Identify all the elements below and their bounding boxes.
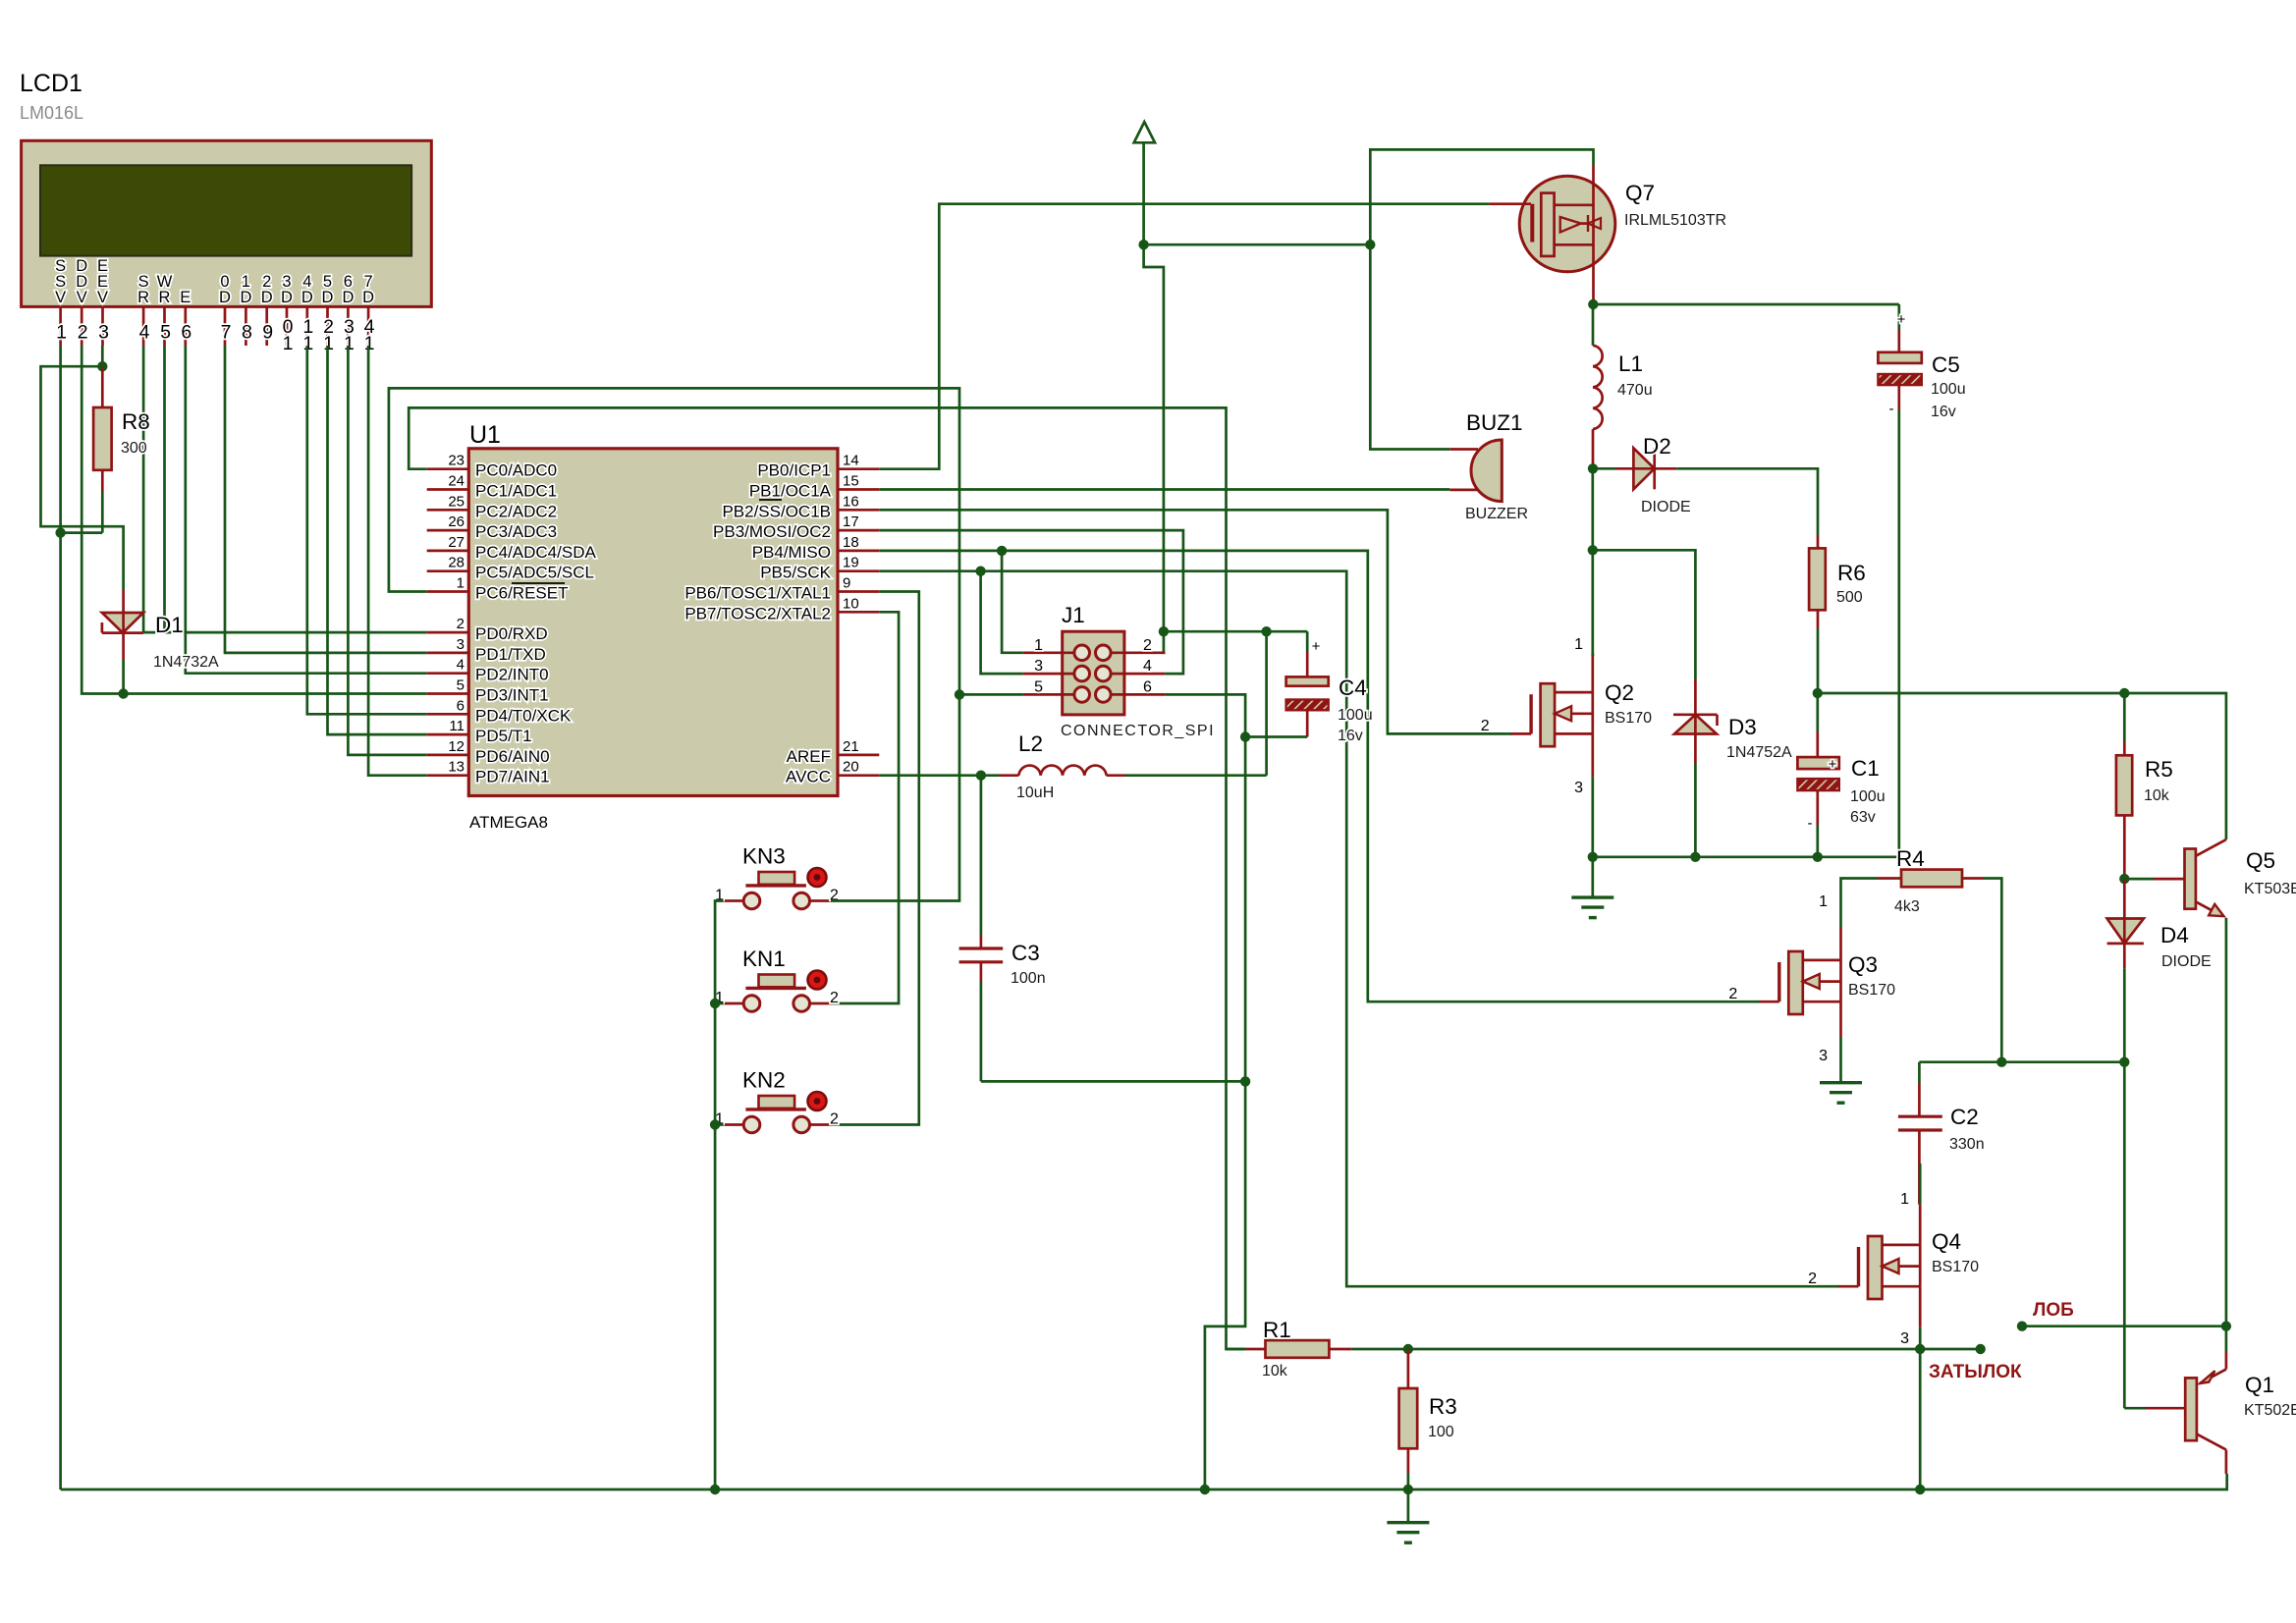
junction node706 / R5 top (2119, 688, 2129, 698)
svg-text:2: 2 (1143, 637, 1152, 654)
wire Q7 drain to C5 (1593, 303, 1899, 306)
svg-text:IRLML5103TR: IRLML5103TR (1624, 212, 1726, 229)
junction L1 bottom / D2 anode (1588, 463, 1598, 473)
svg-text:BUZ1: BUZ1 (1466, 410, 1523, 435)
svg-text:4: 4 (139, 322, 150, 344)
wire J1 pin1 branch (1002, 551, 1023, 653)
svg-text:1: 1 (1574, 636, 1583, 653)
label ZATYLOK (1929, 1362, 2022, 1382)
ground symbol under Q3 (1820, 1083, 1862, 1104)
svg-text:18: 18 (843, 534, 859, 551)
svg-text:100n: 100n (1011, 970, 1046, 987)
svg-text:-: - (1808, 815, 1813, 832)
svg-text:11: 11 (449, 718, 465, 734)
transistor Q3 BS170 n-MOSFET (1728, 893, 1895, 1064)
junction PB5 / J1 pin3 branch (975, 567, 985, 576)
wire PD0 row: D1 cathode to chip pin2 (143, 631, 427, 634)
svg-text:V: V (77, 289, 87, 306)
svg-text:13: 13 (448, 759, 465, 776)
wire VEE loop to D1 anode (41, 366, 124, 589)
diode D2 DIODE (1593, 434, 1691, 515)
wire D2 cathode to R6 top (1676, 468, 1818, 535)
junction rail / C1 bottom (1813, 852, 1823, 862)
wire E net: LCD pin6 down to chip pin4 row (186, 346, 427, 674)
junction J1pin6 column / C4 bottom (1240, 731, 1250, 741)
svg-text:1N4752A: 1N4752A (1726, 744, 1792, 761)
svg-text:3: 3 (1819, 1048, 1828, 1064)
LCD display LCD1 LM016L (20, 70, 431, 306)
svg-text:R4: R4 (1896, 846, 1925, 871)
junction J1pin6 column / C3 bottom row (1240, 1076, 1250, 1086)
wire VEE net: LCD pin3 down to R8 top (101, 346, 104, 366)
wire PB6 net: chip pin9 to KN2 pin2 (831, 592, 919, 1125)
svg-text:25: 25 (448, 493, 465, 510)
transistor Q7 IRLML5103TR p-MOSFET (1490, 165, 1726, 304)
wire main ground rail (61, 1474, 2227, 1489)
junction Q4 source / ground rail (1915, 1485, 1925, 1494)
svg-text:J1: J1 (1062, 603, 1085, 627)
svg-text:PB3/MOSI/OC2: PB3/MOSI/OC2 (713, 522, 831, 541)
power VCC arrow symbol (1134, 122, 1155, 244)
junction VCC rail / Q7 drain branch (1365, 240, 1375, 249)
svg-text:12: 12 (448, 738, 465, 755)
junction VEE / R8 / loop (97, 361, 107, 371)
junction rail / button chain (710, 1485, 720, 1494)
svg-text:D: D (342, 289, 354, 306)
wire Q2 source down to ground node (1591, 777, 1594, 857)
svg-text:1: 1 (283, 333, 294, 354)
svg-text:BS170: BS170 (1932, 1259, 1979, 1275)
junction PB4 / J1 pin1 branch (997, 546, 1007, 556)
svg-text:PB7/TOSC2/XTAL2: PB7/TOSC2/XTAL2 (684, 604, 831, 622)
wire ZATYLOK row R1 to probe (1408, 1348, 1981, 1351)
svg-text:D: D (240, 289, 251, 306)
wire J1 pin3 branch (981, 571, 1023, 674)
svg-text:10: 10 (843, 595, 859, 612)
svg-text:27: 27 (448, 534, 465, 551)
svg-text:PC5/ADC5/SCL: PC5/ADC5/SCL (475, 564, 594, 582)
wire Q2 drain up to D2 node (1591, 654, 1594, 656)
wire PC0/ADC0 net: chip pin23 left, up, right, down to R1 (409, 407, 1245, 1349)
svg-text:PC1/ADC1: PC1/ADC1 (475, 482, 557, 501)
wire R8 bottom to VSS (61, 491, 103, 533)
svg-text:2: 2 (1728, 986, 1737, 1002)
junction C4 branch / L2 right riser (1261, 626, 1271, 636)
svg-text:ЛОБ: ЛОБ (2033, 1300, 2074, 1321)
svg-text:10uH: 10uH (1016, 784, 1054, 801)
svg-text:19: 19 (843, 555, 859, 571)
svg-text:5: 5 (160, 322, 171, 344)
capacitor C3 100n (959, 776, 1246, 1082)
wire KN1 pin1 stub (715, 1002, 724, 1005)
capacitor C5 100u 16v polarized (1878, 304, 1965, 857)
svg-text:C4: C4 (1339, 676, 1367, 700)
junction VCC column / C4 branch (1159, 626, 1169, 636)
wire PB5 net: chip pin19 to Q4 gate (879, 571, 1839, 1286)
svg-text:PB0/ICP1: PB0/ICP1 (757, 461, 831, 480)
svg-text:14: 14 (843, 453, 859, 469)
svg-text:10k: 10k (2144, 787, 2170, 804)
junction Q7 drain / C5 branch (1588, 299, 1598, 309)
junction C1 top / R6 bottom (1813, 688, 1823, 698)
svg-text:1: 1 (56, 322, 67, 344)
svg-text:D: D (261, 289, 273, 306)
inductor L2 10uH (981, 731, 1267, 801)
junction R4 riser / C2 node row (1996, 1057, 2006, 1067)
svg-text:KT502E: KT502E (2244, 1402, 2296, 1419)
svg-text:KN1: KN1 (742, 947, 786, 971)
svg-text:Q7: Q7 (1625, 181, 1655, 205)
svg-text:Q1: Q1 (2245, 1373, 2274, 1397)
wire D6 net: LCD pin13 to chip pin12 row (348, 346, 426, 755)
wire L1/D2 node down to Q2 drain (1591, 468, 1594, 656)
wire PB4 net: chip pin18 to Q3 gate (879, 551, 1760, 1001)
svg-text:100: 100 (1428, 1424, 1454, 1440)
svg-text:16v: 16v (1338, 728, 1363, 744)
svg-text:KT503E: KT503E (2244, 881, 2296, 897)
svg-text:D: D (301, 289, 313, 306)
svg-text:5: 5 (457, 677, 465, 694)
svg-text:1: 1 (1819, 893, 1828, 910)
junction rail / D3 bottom (1690, 852, 1700, 862)
wire D5 net: LCD pin12 to chip pin11 row (328, 346, 427, 734)
wire RW net: LCD pin5 down joins PD0 row (163, 346, 166, 632)
wire C1/R6 node to R5 and Q5 collector riser (1818, 693, 2226, 839)
wire PB3 net: chip pin17 to J1 pin4 (879, 530, 1183, 674)
wire PB0 net: chip pin14 to Q7 gate (879, 204, 1489, 469)
wire BUZ1 pin1 feed (1370, 244, 1449, 449)
svg-text:3: 3 (1574, 780, 1583, 796)
junction R3 bottom / ground rail (1403, 1485, 1413, 1494)
svg-text:28: 28 (448, 555, 465, 571)
svg-text:R1: R1 (1263, 1318, 1291, 1342)
svg-text:Q2: Q2 (1605, 680, 1634, 705)
svg-text:20: 20 (843, 759, 859, 776)
svg-text:PB2/SS/OC1B: PB2/SS/OC1B (722, 502, 831, 520)
svg-text:D: D (362, 289, 374, 306)
svg-text:KN3: KN3 (742, 844, 786, 869)
junction R5 bottom / Q5 base / D4 top (2119, 874, 2129, 884)
svg-text:R3: R3 (1429, 1394, 1457, 1419)
svg-text:V: V (55, 289, 66, 306)
svg-text:U1: U1 (469, 421, 501, 449)
svg-text:+: + (1897, 311, 1906, 328)
svg-text:CONNECTOR_SPI: CONNECTOR_SPI (1061, 723, 1215, 739)
svg-text:4k3: 4k3 (1894, 898, 1920, 915)
svg-text:PC3/ADC3: PC3/ADC3 (475, 522, 557, 541)
svg-text:PD0/RXD: PD0/RXD (475, 624, 548, 643)
wire PB1 net: chip pin15 to BUZ1 pin2 (879, 488, 1449, 491)
wire VCC down to J1 pin2 (1144, 244, 1166, 653)
svg-text:LCD1: LCD1 (20, 70, 82, 97)
svg-text:4: 4 (1143, 658, 1152, 675)
wire Q5 emitter down to LOB node (2225, 918, 2228, 1326)
svg-text:L2: L2 (1018, 731, 1043, 756)
node ZATYLOK endpoint (1976, 1344, 1986, 1354)
junction VSS / R8 bottom (55, 527, 65, 537)
svg-text:R6: R6 (1837, 561, 1866, 585)
svg-text:3: 3 (98, 322, 109, 344)
svg-text:BS170: BS170 (1848, 982, 1895, 999)
node LOB wire (2022, 1325, 2226, 1327)
svg-text:PD3/INT1: PD3/INT1 (475, 686, 549, 705)
wire RS net: LCD pin4 down to PD0 row (142, 346, 145, 632)
svg-text:26: 26 (448, 514, 465, 530)
wire AVCC net: chip pin20 to L2 left (879, 774, 981, 777)
svg-text:PB1/OC1A: PB1/OC1A (749, 482, 832, 501)
svg-text:R8: R8 (122, 409, 150, 434)
svg-text:D: D (322, 289, 334, 306)
svg-text:6: 6 (1143, 678, 1152, 695)
svg-text:3: 3 (1034, 658, 1043, 675)
svg-text:7: 7 (221, 322, 232, 344)
svg-text:+: + (1829, 756, 1837, 773)
wire C2 node row (1919, 1060, 2124, 1063)
svg-text:63v: 63v (1850, 809, 1876, 826)
svg-text:PD4/T0/XCK: PD4/T0/XCK (475, 706, 572, 725)
svg-text:330n: 330n (1949, 1136, 1985, 1153)
svg-text:E: E (180, 289, 191, 306)
wire D0 net: LCD pin7 down to chip pin3 row (225, 346, 427, 653)
zener diode D1 1N4732A (102, 589, 219, 694)
transistor Q4 BS170 n-MOSFET (1808, 1163, 1979, 1489)
svg-text:D3: D3 (1728, 715, 1757, 739)
svg-text:100u: 100u (1931, 381, 1966, 398)
resistor R6 500 (1809, 535, 1866, 693)
svg-text:PB4/MISO: PB4/MISO (752, 543, 831, 562)
svg-text:PC2/ADC2: PC2/ADC2 (475, 502, 557, 520)
svg-text:AREF: AREF (787, 747, 831, 766)
svg-text:-: - (1889, 401, 1894, 417)
svg-text:5: 5 (1034, 678, 1043, 695)
resistor R5 10k (2116, 693, 2173, 879)
svg-text:1: 1 (457, 575, 465, 592)
wire L2 right riser (1265, 631, 1268, 776)
junction D2 node / D3 branch (1588, 545, 1598, 555)
svg-text:C3: C3 (1011, 941, 1040, 965)
capacitor C1 100u 63v polarized (1797, 693, 1885, 857)
ground symbol under Q2 (1571, 857, 1613, 918)
junction Q2 source / ground rail (1588, 852, 1598, 862)
svg-text:16v: 16v (1931, 404, 1956, 420)
junction R1 / R3 top (1403, 1344, 1413, 1354)
svg-text:2: 2 (457, 616, 465, 632)
resistor R4 4k3 (1841, 846, 2002, 1062)
svg-text:R: R (137, 289, 149, 306)
svg-text:R5: R5 (2145, 757, 2173, 782)
junction VCC arrow / rail (1138, 240, 1148, 249)
svg-text:6: 6 (457, 697, 465, 714)
svg-text:2: 2 (1481, 718, 1490, 734)
junction chain / KN2 pin1 (710, 1119, 720, 1129)
svg-text:D: D (219, 289, 231, 306)
svg-text:PC0/ADC0: PC0/ADC0 (475, 461, 557, 480)
svg-text:BUZZER: BUZZER (1465, 506, 1528, 522)
svg-text:PD2/INT0: PD2/INT0 (475, 666, 549, 684)
svg-text:21: 21 (843, 738, 859, 755)
pushbutton KN1 (715, 947, 839, 1011)
svg-text:LM016L: LM016L (20, 103, 83, 123)
svg-text:6: 6 (181, 322, 191, 344)
wire RESET net: chip pin1 left, up, right to J1 pin5 column (389, 388, 959, 694)
wire PB7 net: chip pin10 to KN1 pin2 (831, 612, 899, 1003)
transistor Q2 BS170 n-MOSFET (1481, 636, 1652, 796)
wire J1 pin5 row (959, 693, 1023, 696)
svg-text:1: 1 (1900, 1191, 1909, 1208)
svg-text:15: 15 (843, 473, 859, 490)
svg-text:3: 3 (457, 636, 465, 653)
svg-text:BS170: BS170 (1605, 710, 1652, 727)
wire KN3 pin2 to RESET column (831, 694, 959, 900)
wire PB2 net: chip pin16 to Q2 gate (879, 510, 1511, 733)
svg-text:16: 16 (843, 493, 859, 510)
label LOB (2033, 1300, 2074, 1321)
wire VDD net: LCD pin2 down, right to chip pin5 row (82, 346, 427, 694)
wire D3 top branch (1593, 550, 1696, 679)
svg-text:Q5: Q5 (2246, 848, 2275, 873)
svg-text:PD6/AIN0: PD6/AIN0 (475, 747, 550, 766)
zener diode D3 1N4752A (1673, 679, 1792, 857)
svg-text:PC4/ADC4/SDA: PC4/ADC4/SDA (475, 543, 596, 562)
svg-text:Q3: Q3 (1848, 952, 1878, 977)
junction LOB / Q5 emitter / Q1 emitter (2221, 1322, 2231, 1331)
svg-text:D4: D4 (2160, 923, 2189, 947)
svg-text:DIODE: DIODE (2161, 953, 2212, 970)
wire Q3 source to ground (1839, 1037, 1842, 1083)
svg-text:ЗАТЫЛОК: ЗАТЫЛОК (1929, 1362, 2022, 1382)
svg-text:PD7/AIN1: PD7/AIN1 (475, 768, 550, 786)
svg-text:2: 2 (78, 322, 88, 344)
svg-text:1N4732A: 1N4732A (153, 654, 219, 671)
svg-text:500: 500 (1836, 589, 1863, 606)
svg-text:9: 9 (262, 322, 273, 344)
junction AVCC / L2 / C3 top (976, 771, 986, 781)
svg-text:470u: 470u (1617, 382, 1653, 399)
svg-text:C5: C5 (1932, 352, 1960, 377)
svg-text:D2: D2 (1643, 434, 1671, 459)
svg-text:PD1/TXD: PD1/TXD (475, 645, 546, 664)
wire VCC rail horizontal (1144, 243, 1371, 246)
IC U1 ATMEGA8 with pin stubs, pin numbers and pin names (427, 421, 880, 832)
svg-text:C1: C1 (1851, 756, 1880, 781)
svg-text:4: 4 (457, 657, 465, 674)
svg-text:PB6/TOSC1/XTAL1: PB6/TOSC1/XTAL1 (684, 584, 831, 603)
connector J1 CONNECTOR_SPI (1023, 603, 1215, 739)
resistor R8 300 (93, 366, 150, 491)
wire VSS net: LCD pin1 down left edge to ground rail (59, 346, 62, 1489)
wire Q2 source rail to C5 bottom (1593, 855, 1899, 858)
wire Q7 top feed (1370, 149, 1593, 244)
wire D4 net: LCD pin11 to chip pin6 row (307, 346, 427, 714)
svg-text:9: 9 (843, 575, 850, 592)
transistor Q5 KT503E NPN (2124, 839, 2296, 916)
diode D4 DIODE (2107, 879, 2212, 1408)
wire J1 pin6 to C4 bottom and down (1165, 694, 1245, 1489)
transistor Q1 KT502E PNP (2124, 1326, 2296, 1474)
svg-text:Q4: Q4 (1932, 1229, 1961, 1254)
LCD1 pin stubs and pin numbers 1-14 (56, 306, 375, 354)
junction J1 pin5 / RESET / KN3 (955, 689, 964, 699)
svg-text:3: 3 (1900, 1330, 1909, 1347)
svg-text:PB5/SCK: PB5/SCK (760, 564, 831, 582)
svg-text:100u: 100u (1338, 707, 1373, 724)
svg-text:ATMEGA8: ATMEGA8 (469, 813, 548, 832)
junction Q4 source / ZATYLOK row (1915, 1344, 1925, 1354)
svg-text:100u: 100u (1850, 788, 1886, 805)
pushbutton KN2 (715, 1068, 839, 1133)
svg-text:23: 23 (448, 453, 465, 469)
node LOB endpoint (2017, 1322, 2027, 1331)
svg-text:PD5/T1: PD5/T1 (475, 727, 532, 745)
svg-text:+: + (1312, 638, 1321, 655)
resistor R3 100 (1399, 1349, 1457, 1489)
svg-text:L1: L1 (1618, 352, 1643, 376)
capacitor C2 330n (1898, 1062, 1985, 1205)
buzzer BUZ1 BUZZER (1449, 410, 1528, 522)
svg-text:D1: D1 (155, 613, 184, 637)
svg-text:2: 2 (830, 1111, 839, 1128)
wire C4 top branch (1164, 630, 1307, 633)
wire button chain (715, 901, 724, 1490)
svg-text:R: R (159, 289, 171, 306)
capacitor C4 100u 16v polarized (1245, 631, 1372, 744)
svg-text:AVCC: AVCC (786, 768, 831, 786)
ground symbol under R3 (1387, 1489, 1429, 1542)
svg-text:17: 17 (843, 514, 859, 530)
wire D7 net: LCD pin14 to chip pin13 row (368, 346, 427, 776)
junction rail / J1 pin6 column (1200, 1485, 1210, 1494)
junction chain / KN1 pin1 (710, 999, 720, 1008)
svg-text:D: D (281, 289, 293, 306)
svg-text:10k: 10k (1262, 1363, 1288, 1380)
junction D1 cathode / VDD-PD3 row (118, 688, 128, 698)
svg-text:DIODE: DIODE (1641, 499, 1691, 515)
svg-text:24: 24 (448, 473, 465, 490)
inductor L1 470u (1593, 304, 1653, 468)
junction D4 column / C2 node row (2119, 1057, 2129, 1067)
svg-text:KN2: KN2 (742, 1068, 786, 1093)
svg-text:300: 300 (121, 440, 147, 457)
svg-text:8: 8 (242, 322, 252, 344)
svg-text:2: 2 (1808, 1271, 1817, 1287)
svg-text:2: 2 (830, 990, 839, 1006)
svg-text:PC6/RESET: PC6/RESET (475, 584, 568, 603)
svg-text:1: 1 (1034, 637, 1043, 654)
svg-text:V: V (97, 289, 108, 306)
resistor R1 10k (1227, 1318, 1408, 1380)
pushbutton KN3 (715, 844, 839, 909)
svg-text:C2: C2 (1950, 1105, 1979, 1129)
wire KN2 pin1 stub (715, 1123, 724, 1126)
